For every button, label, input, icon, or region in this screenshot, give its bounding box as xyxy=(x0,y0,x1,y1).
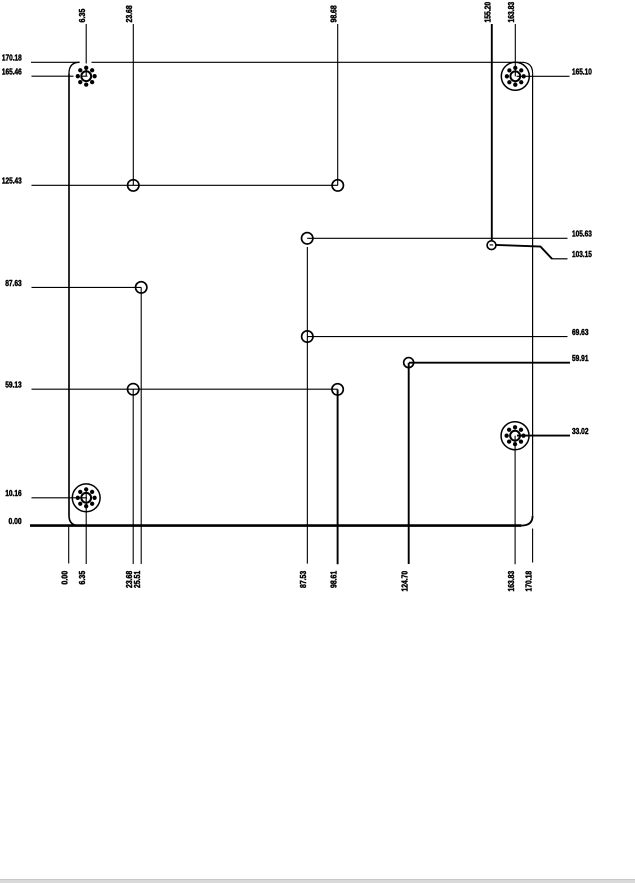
svg-text:103.15: 103.15 xyxy=(572,250,592,259)
svg-text:10.16: 10.16 xyxy=(5,489,22,498)
svg-text:59.13: 59.13 xyxy=(5,381,22,390)
svg-text:59.91: 59.91 xyxy=(572,354,589,363)
svg-text:105.63: 105.63 xyxy=(572,230,592,239)
svg-text:0.00: 0.00 xyxy=(61,570,70,584)
svg-text:165.10: 165.10 xyxy=(572,68,592,77)
svg-text:0.00: 0.00 xyxy=(9,517,23,526)
svg-text:6.35: 6.35 xyxy=(78,8,87,22)
svg-text:165.46: 165.46 xyxy=(2,68,22,77)
svg-text:163.83: 163.83 xyxy=(507,1,516,22)
svg-text:155.20: 155.20 xyxy=(484,1,493,22)
svg-text:98.61: 98.61 xyxy=(329,570,338,588)
svg-text:124.70: 124.70 xyxy=(401,570,410,591)
svg-text:163.83: 163.83 xyxy=(507,570,516,591)
svg-text:87.63: 87.63 xyxy=(5,279,22,288)
svg-text:125.43: 125.43 xyxy=(2,177,22,186)
svg-text:33.02: 33.02 xyxy=(572,427,589,436)
svg-text:23.68: 23.68 xyxy=(125,5,134,23)
svg-text:98.68: 98.68 xyxy=(330,5,339,23)
svg-text:87.53: 87.53 xyxy=(299,570,308,588)
svg-text:25.51: 25.51 xyxy=(133,570,142,588)
svg-text:6.35: 6.35 xyxy=(78,570,87,584)
svg-text:69.63: 69.63 xyxy=(572,328,589,337)
svg-text:170.18: 170.18 xyxy=(2,54,22,63)
svg-text:170.18: 170.18 xyxy=(524,570,533,591)
